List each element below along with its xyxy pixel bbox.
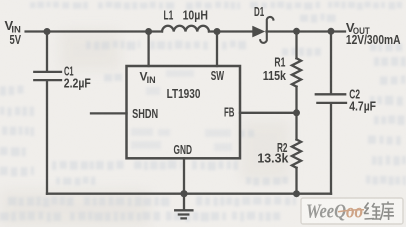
node junction at SW pin bbox=[214, 28, 221, 35]
node junction FB bbox=[293, 109, 300, 116]
node VIN input rail bbox=[26, 30, 162, 32]
node junction R2 bottom bbox=[293, 190, 300, 197]
diode D1 bbox=[252, 26, 265, 38]
wire R1 upper bbox=[295, 32, 297, 59]
wire SW pin bbox=[216, 32, 218, 67]
wire SHDN stub bbox=[91, 112, 127, 114]
node junction at C2 top bbox=[328, 28, 335, 35]
watermark WeeQoo bbox=[301, 198, 403, 224]
node junction at R1 top bbox=[293, 28, 300, 35]
wire R2 upper bbox=[295, 113, 297, 140]
capacitor C2 bbox=[316, 94, 346, 103]
wire R1 lower bbox=[295, 87, 297, 113]
inductor L1 bbox=[162, 26, 209, 32]
op-amp U1 LT1930 box bbox=[127, 66, 241, 158]
wire C2 branch lower bbox=[330, 104, 332, 194]
wire GND pin bbox=[183, 158, 185, 193]
wire C2 branch upper bbox=[330, 32, 332, 94]
wire C1 branch upper bbox=[46, 32, 48, 72]
wire ground rail bbox=[47, 193, 331, 195]
node junction at VIN pin bbox=[145, 28, 152, 35]
wire R2 lower bbox=[295, 168, 297, 194]
node junction at C1 bbox=[44, 28, 51, 35]
wire C1 branch lower bbox=[46, 81, 48, 194]
ground bbox=[175, 194, 192, 219]
resistor R1 bbox=[292, 58, 301, 86]
wire top rail middle bbox=[209, 30, 253, 32]
diode D1 schottky cathode bbox=[260, 17, 273, 43]
capacitor C1 bbox=[34, 72, 61, 80]
node junction GND bbox=[180, 190, 187, 197]
wire VIN pin bbox=[147, 32, 149, 67]
wire FB pin bbox=[240, 112, 297, 114]
wire top rail right to VOUT bbox=[267, 30, 346, 32]
resistor R2 bbox=[292, 140, 301, 168]
